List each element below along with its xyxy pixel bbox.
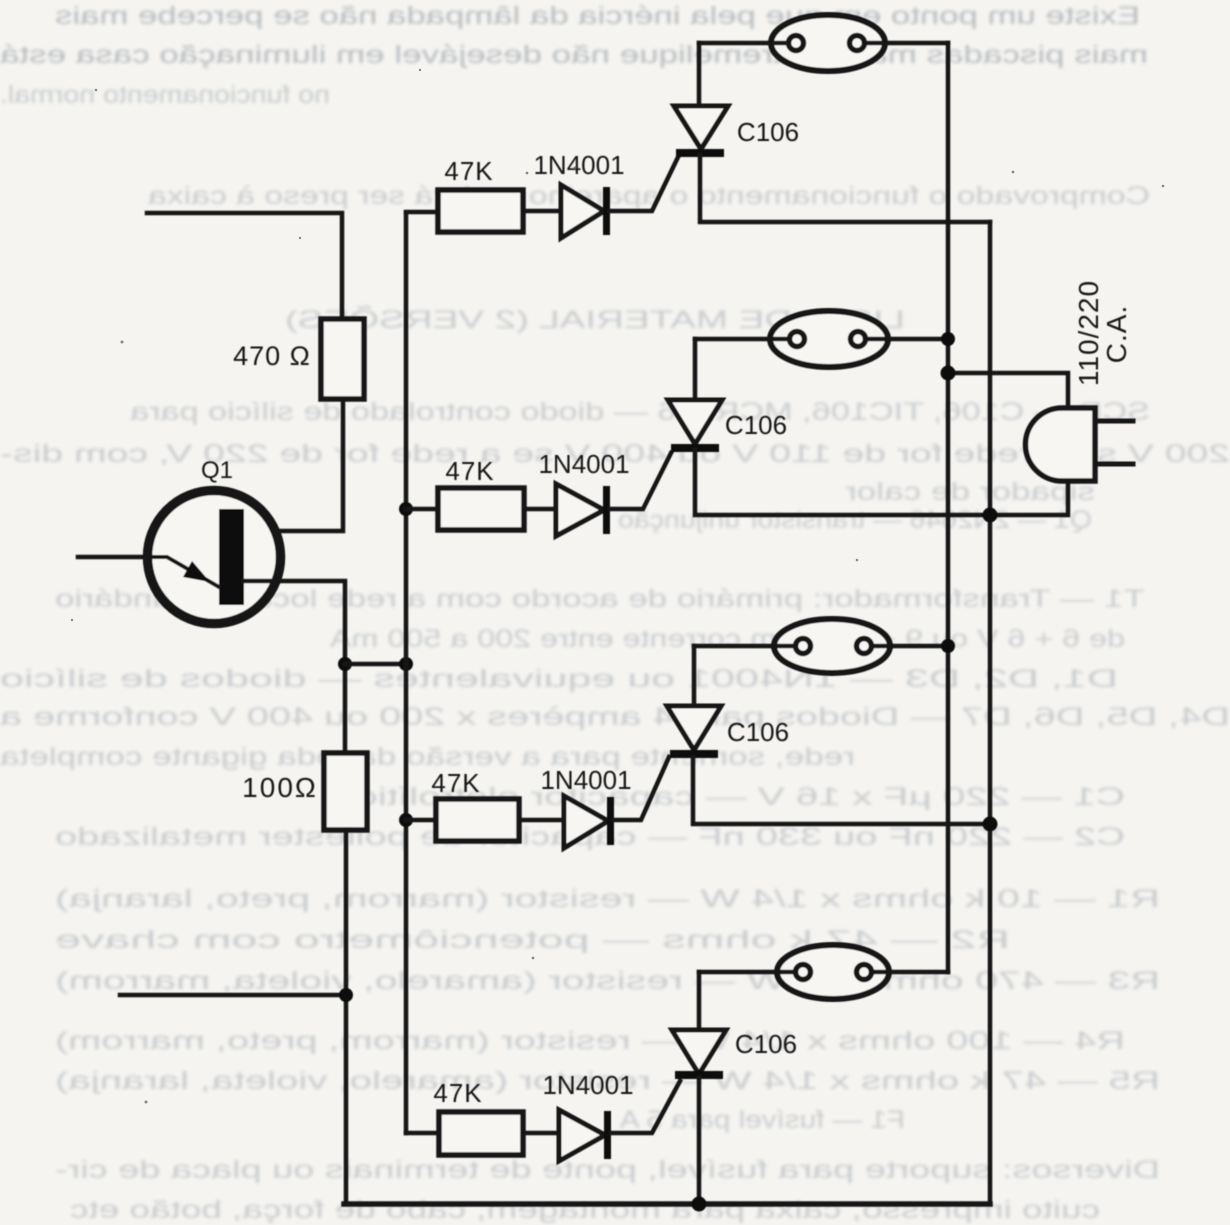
svg-text:47K: 47K: [433, 1078, 482, 1108]
wire: right socket bus (bus 1): [946, 43, 951, 972]
wire: diode to gate of SCR1: [610, 155, 679, 211]
svg-text:C106: C106: [725, 410, 787, 440]
socket X2: [695, 311, 948, 367]
plug P1 110/220 C.A.: [1026, 408, 1134, 481]
junction dot on stub: [339, 988, 353, 1002]
SCR4 C106: [672, 1030, 726, 1079]
wire: SCR4 anode up to socket X4: [697, 972, 702, 1030]
SCR2 C106: [668, 400, 722, 452]
wire: top-left input to 470 ohm: [147, 213, 342, 321]
svg-text:100Ω: 100Ω: [242, 772, 318, 803]
junction dot SCR2 cathode on bus 2: [983, 508, 998, 523]
svg-text:D1, D2, D3 — 1N4001 ou equival: D1, D2, D3 — 1N4001 ou equivalentes — di…: [0, 665, 1118, 693]
wire: SCR2 cathode to bus 2 and plug bottom: [695, 450, 1068, 515]
diode D1 1N4001 (row 1): [561, 185, 610, 238]
junction dot socket X2 / bus 1: [941, 332, 955, 346]
junction dot SCR3 cathode on bus 2: [983, 817, 998, 832]
resistor R4 100 ohm: [324, 753, 367, 830]
svg-text:47K: 47K: [444, 156, 493, 186]
svg-text:rede, somente para a versão da: rede, somente para a versão da roda giga…: [0, 743, 855, 771]
svg-text:Diversos: suporte para fusível: Diversos: suporte para fusível, ponte de…: [55, 1156, 1160, 1184]
row 4: wire left bus corner to resistor: [406, 1131, 559, 1136]
junction dot plug tap on bus 1: [941, 366, 956, 381]
row 1: wire left bus to resistor: [406, 211, 561, 212]
svg-text:mais piscadas mas um tremeliqu: mais piscadas mas um tremelique não dese…: [0, 41, 1148, 69]
svg-text:R4 — 100 ohms x 1/4 W — resist: R4 — 100 ohms x 1/4 W — resistor (marrom…: [55, 1027, 1125, 1055]
svg-text:R1 — 10 k ohms x 1/4 W — resis: R1 — 10 k ohms x 1/4 W — resistor (marro…: [55, 885, 1160, 913]
svg-text:1N4001: 1N4001: [542, 1070, 633, 1100]
svg-text:Q1 — 2N2646 — transistor uniju: Q1 — 2N2646 — transistor unijunção: [618, 506, 1092, 534]
wire: diode to gate of SCR2: [610, 453, 671, 509]
wire: 470 ohm to Q1 base B2: [244, 399, 343, 531]
wire: 100 ohm down to bottom rail: [344, 830, 349, 1204]
wire: SCR2 anode up to socket X2: [693, 339, 698, 400]
diode D2 1N4001 (row 2): [556, 484, 610, 536]
svg-text:1N4001: 1N4001: [538, 449, 629, 479]
resistor 47K (row 1): [438, 190, 523, 232]
wire: node A jumper to left bus: [345, 662, 406, 667]
wire: SCR3 cathode to bus 2: [693, 758, 990, 824]
socket X4: [699, 945, 948, 999]
node A junction dot: [338, 657, 352, 671]
scan speckles: [71, 69, 1164, 1104]
wire: SCR1 cathode to bus 2: [700, 155, 990, 222]
socket X3: [694, 619, 948, 673]
SCR1 C106: [674, 106, 728, 157]
SCR3 C106: [667, 706, 721, 758]
svg-text:C106: C106: [735, 1029, 797, 1059]
svg-text:cuito impresso, caixa para mon: cuito impresso, caixa para montagem, cab…: [70, 1196, 1100, 1224]
svg-text:Existe um ponto em que pela in: Existe um ponto em que pela inércia da l…: [55, 2, 1140, 30]
wire: bottom rail: [344, 1201, 990, 1207]
wire: left gate bus: [404, 213, 409, 1133]
svg-text:no funcionamento normal.: no funcionamento normal.: [0, 81, 330, 109]
resistor 47K (row 4): [439, 1112, 523, 1155]
svg-text:R3 — 470 ohms x 1 W — resistor: R3 — 470 ohms x 1 W — resistor (amarelo,…: [55, 967, 1160, 995]
row 2: wire left bus to resistor: [406, 507, 556, 512]
svg-text:SCR — C106, TIC106, MCR106 — d: SCR — C106, TIC106, MCR106 — diodo contr…: [130, 398, 1150, 426]
svg-text:47K: 47K: [445, 456, 494, 486]
wire: diode to gate of SCR4: [611, 1081, 680, 1133]
svg-text:de 6 + 6 V ou 9 + 9 V com corr: de 6 + 6 V ou 9 + 9 V com corrente entre…: [330, 625, 1125, 653]
svg-text:110/220: 110/220: [1073, 280, 1104, 386]
svg-text:1N4001: 1N4001: [533, 150, 624, 180]
resistor 47K (row 3): [436, 799, 519, 841]
wire: SCR1 anode up to socket X1: [697, 43, 702, 106]
resistor 47K (row 2): [438, 488, 524, 530]
diode D4 1N4001 (row 4): [559, 1110, 611, 1161]
row 3: wire left bus to resistor: [406, 818, 564, 823]
row 2: junction dot on left bus: [399, 502, 413, 516]
wire: bus 1 tap to plug P1: [948, 373, 1068, 408]
wire: capacitor tap stub: [120, 993, 346, 998]
svg-text:47K: 47K: [431, 768, 480, 798]
svg-text:C106: C106: [727, 717, 789, 747]
socket X1: [699, 15, 948, 71]
row 3: junction dot on left bus: [399, 813, 413, 827]
svg-text:D4, D5, D6, D7 — Diodos para 4: D4, D5, D6, D7 — Diodos para 4 ampères x…: [0, 703, 1230, 731]
wire: Q1 base B1 to node A: [244, 581, 345, 753]
resistor R3 470 ohm: [321, 319, 364, 399]
wire: right return bus (bus 2): [988, 222, 993, 1204]
svg-text:C.A.: C.A.: [1101, 305, 1132, 363]
diode D3 1N4001 (row 3): [564, 796, 614, 848]
wire: diode to gate of SCR3: [614, 757, 669, 820]
junction dot SCR4 cathode on bottom rail: [692, 1197, 707, 1212]
wire: SCR3 anode up to socket X3: [692, 646, 697, 706]
node B junction dot on left bus: [399, 657, 413, 671]
junction dot socket X3 / bus 1: [941, 639, 955, 653]
svg-text:Q1: Q1: [201, 457, 233, 484]
svg-text:470 Ω: 470 Ω: [233, 341, 311, 371]
svg-text:1N4001: 1N4001: [540, 765, 631, 795]
svg-text:Comprovado o funcionamento o a: Comprovado o funcionamento o aparelho po…: [148, 182, 1150, 210]
wire: SCR4 cathode to bottom rail: [697, 1078, 702, 1204]
transistor Q1 (2N2646 unijunction): [148, 491, 281, 624]
svg-text:C106: C106: [737, 117, 799, 147]
wire: emitter lead of Q1: [78, 555, 150, 560]
